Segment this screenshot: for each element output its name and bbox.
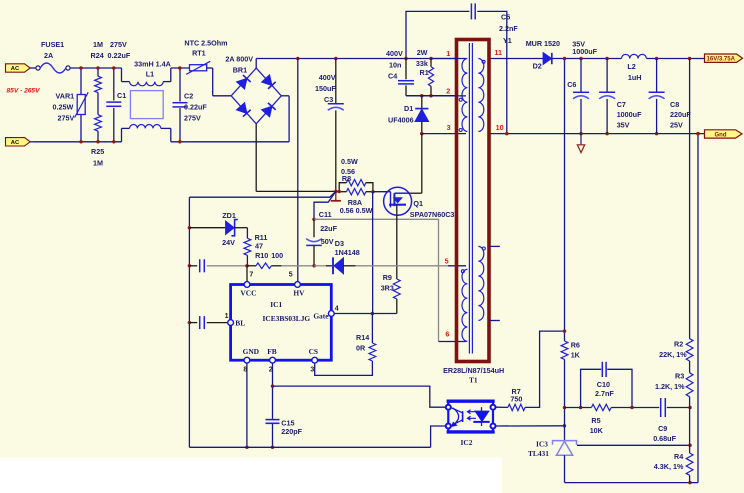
svg-text:IC1: IC1: [270, 300, 282, 309]
svg-text:C4: C4: [388, 72, 397, 81]
svg-text:0.56 0.5W: 0.56 0.5W: [340, 206, 373, 215]
svg-text:0.5W: 0.5W: [341, 157, 358, 166]
svg-text:2A 800V: 2A 800V: [225, 55, 253, 64]
svg-text:C3: C3: [324, 95, 333, 104]
svg-text:275V: 275V: [184, 114, 201, 123]
svg-text:400V: 400V: [319, 73, 336, 82]
svg-text:L1: L1: [146, 70, 154, 79]
svg-text:IC2: IC2: [461, 438, 473, 447]
svg-text:47: 47: [255, 241, 263, 250]
svg-text:8: 8: [243, 366, 247, 373]
svg-text:IC3: IC3: [536, 440, 548, 449]
svg-text:100: 100: [271, 251, 283, 260]
svg-text:BR1: BR1: [233, 65, 247, 74]
svg-text:24V: 24V: [222, 238, 235, 247]
svg-text:C9: C9: [658, 424, 667, 433]
svg-text:Y1: Y1: [503, 36, 512, 45]
svg-text:33k: 33k: [416, 59, 428, 68]
svg-text:R6: R6: [571, 340, 580, 349]
svg-text:D1: D1: [404, 104, 413, 113]
svg-text:0.22uF: 0.22uF: [184, 103, 207, 112]
svg-text:1: 1: [446, 49, 450, 58]
svg-text:R3: R3: [675, 371, 684, 380]
svg-text:11: 11: [494, 48, 502, 57]
svg-text:4: 4: [335, 305, 339, 312]
svg-text:0.22uF: 0.22uF: [108, 51, 131, 60]
svg-text:R2: R2: [674, 339, 683, 348]
svg-text:T1: T1: [469, 376, 478, 385]
svg-text:220uF: 220uF: [670, 110, 691, 119]
svg-text:HV: HV: [293, 289, 305, 298]
svg-text:3: 3: [310, 366, 314, 373]
svg-text:L2: L2: [627, 62, 635, 71]
svg-text:C7: C7: [617, 100, 626, 109]
svg-text:10n: 10n: [389, 60, 401, 69]
svg-text:ZD1: ZD1: [222, 211, 236, 220]
svg-text:25V: 25V: [670, 120, 683, 129]
svg-text:2A: 2A: [44, 51, 53, 60]
svg-text:NTC 2.5Ohm: NTC 2.5Ohm: [184, 39, 227, 48]
svg-text:FUSE1: FUSE1: [41, 40, 64, 49]
svg-text:275V: 275V: [110, 40, 127, 49]
svg-text:2: 2: [446, 87, 450, 96]
svg-text:VCC: VCC: [240, 289, 256, 298]
svg-text:275V: 275V: [58, 114, 75, 123]
svg-text:6: 6: [445, 329, 449, 338]
svg-text:10: 10: [496, 123, 504, 132]
svg-text:UF4006: UF4006: [388, 115, 414, 124]
svg-text:7: 7: [249, 272, 253, 279]
svg-text:4.3K, 1%: 4.3K, 1%: [654, 462, 684, 471]
svg-text:C6: C6: [567, 80, 576, 89]
svg-text:C2: C2: [184, 92, 193, 101]
svg-text:TL431: TL431: [528, 449, 549, 458]
svg-text:D2: D2: [533, 62, 542, 71]
svg-text:R4: R4: [674, 452, 683, 461]
svg-text:1: 1: [225, 313, 229, 320]
svg-text:MUR 1520: MUR 1520: [526, 39, 560, 48]
svg-text:3R3: 3R3: [381, 284, 394, 293]
svg-text:1000uF: 1000uF: [572, 47, 597, 56]
svg-text:150uF: 150uF: [315, 84, 336, 93]
svg-text:750: 750: [510, 394, 522, 403]
svg-text:Gate: Gate: [313, 311, 329, 320]
svg-text:C11: C11: [319, 210, 332, 219]
svg-text:2: 2: [269, 366, 273, 373]
svg-text:3: 3: [447, 123, 451, 132]
svg-text:GND: GND: [243, 347, 259, 356]
svg-text:1N4148: 1N4148: [335, 248, 360, 257]
svg-text:5: 5: [445, 257, 449, 266]
svg-text:R14: R14: [356, 333, 369, 342]
svg-text:0R: 0R: [356, 343, 366, 352]
svg-text:1000uF: 1000uF: [617, 110, 642, 119]
svg-text:33mH 1.4A: 33mH 1.4A: [134, 60, 171, 69]
svg-text:1uH: 1uH: [628, 73, 642, 82]
svg-text:C8: C8: [670, 100, 679, 109]
svg-text:2W: 2W: [417, 48, 428, 57]
svg-text:CS: CS: [309, 347, 318, 356]
svg-text:400V: 400V: [386, 49, 403, 58]
svg-text:22K, 1%: 22K, 1%: [659, 350, 687, 359]
svg-text:220pF: 220pF: [281, 427, 302, 436]
svg-text:AC: AC: [11, 66, 20, 72]
svg-text:BL: BL: [235, 319, 245, 328]
svg-text:50V: 50V: [321, 237, 334, 246]
svg-text:2.7nF: 2.7nF: [595, 389, 614, 398]
svg-text:Q1: Q1: [413, 199, 423, 208]
svg-text:C10: C10: [597, 380, 610, 389]
svg-text:RT1: RT1: [192, 48, 206, 57]
svg-text:R24: R24: [91, 51, 104, 60]
svg-text:1M: 1M: [93, 158, 103, 167]
svg-text:16V/3.75A: 16V/3.75A: [707, 57, 736, 63]
svg-text:22uF: 22uF: [320, 224, 337, 233]
svg-text:C5: C5: [501, 12, 510, 21]
svg-text:R5: R5: [591, 416, 600, 425]
svg-text:D3: D3: [335, 239, 344, 248]
svg-text:FB: FB: [267, 347, 277, 356]
svg-text:Gnd: Gnd: [715, 132, 727, 138]
svg-text:ICE3BS03LJG: ICE3BS03LJG: [263, 314, 311, 323]
svg-text:SPA07N60C3: SPA07N60C3: [410, 210, 455, 219]
svg-text:10K: 10K: [590, 426, 604, 435]
svg-text:R1: R1: [420, 68, 429, 77]
svg-text:1.2K, 1%: 1.2K, 1%: [655, 382, 685, 391]
svg-text:R10: R10: [255, 251, 268, 260]
svg-text:AC: AC: [11, 140, 20, 146]
svg-text:1M: 1M: [93, 40, 103, 49]
svg-text:VAR1: VAR1: [56, 92, 75, 101]
svg-text:ER28L/N87/154uH: ER28L/N87/154uH: [443, 366, 504, 375]
svg-text:5: 5: [289, 272, 293, 279]
svg-text:0.25W: 0.25W: [53, 103, 74, 112]
svg-text:35V: 35V: [617, 120, 630, 129]
svg-text:1K: 1K: [571, 350, 581, 359]
svg-text:0.68uF: 0.68uF: [653, 434, 676, 443]
svg-text:R25: R25: [91, 147, 104, 156]
svg-text:R8: R8: [342, 174, 351, 183]
svg-text:85V - 265V: 85V - 265V: [7, 88, 41, 95]
svg-text:R9: R9: [383, 273, 392, 282]
svg-text:C1: C1: [117, 91, 126, 100]
svg-text:2.2nF: 2.2nF: [499, 24, 518, 33]
